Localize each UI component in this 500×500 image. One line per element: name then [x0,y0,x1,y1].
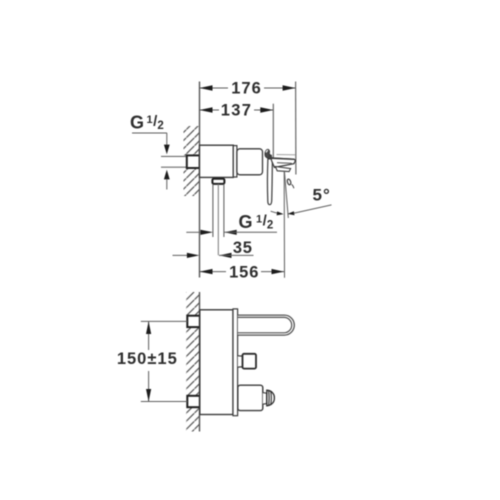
U-shaped handle loop inner [238,317,292,332]
G 1/2 bottom label line [224,231,277,233]
mixer body on wall [200,145,234,177]
dimension line 176 [200,87,296,89]
extension lines for 150 dimension [141,320,188,322]
diverter knob stem [238,356,243,368]
wall hatching lower part [184,168,200,196]
shower hose connection nut below body [212,179,224,184]
G 1/2 bottom dimension: tail through wall, arrow to pipe left edge [186,231,201,233]
arrowhead 156 right [272,269,285,274]
arrowhead 137 left [200,107,213,112]
dimension 35 tail line [173,254,191,256]
wall line [199,292,201,432]
mixer body front [200,310,233,415]
extension line right for 137 [272,104,274,159]
svg-text:G1/2: G1/2 [239,212,274,232]
lever blade [267,159,272,205]
arrow down to pipe top [164,145,170,155]
svg-text:G1/2: G1/2 [130,113,164,133]
wall face line [199,82,201,278]
pipe centre line [217,184,219,255]
arrow up to pipe bottom [164,170,170,180]
G 1/2 top leader vertical [166,133,168,146]
arrowhead 150 bottom [146,389,151,402]
cartridge housing [237,149,263,175]
bottom outlet cylinder [238,385,263,410]
arrowhead 176 right [283,85,296,90]
small knob neck [263,393,267,405]
dimension line 156 [200,271,285,273]
U-shaped handle loop outer [238,315,294,335]
right arrow at pipe right edge, label line [224,230,237,235]
small knob cap [267,390,275,406]
svg-text:150±15: 150±15 [117,350,178,368]
svg-text:35: 35 [233,239,253,257]
handle paddle (top lever arm) [271,158,295,168]
face plate band [233,309,238,416]
svg-text:176: 176 [231,80,262,98]
body ring / flange [233,146,237,177]
G 1/2 top label underline [132,132,167,134]
arrowhead 137 right [260,107,273,112]
arrowhead 176 left [200,85,213,90]
inlet pipe through wall [161,155,187,157]
angle arrowhead right [288,211,295,215]
svg-text:137: 137 [221,102,252,120]
handle joint bump [265,149,271,158]
diverter knob head [243,354,257,369]
small arc detail right of hook [292,184,294,188]
wall hatching upper part [184,126,200,156]
arrowhead G 1/2 at pipe left edge [201,230,214,235]
angle arrowhead left [277,211,284,215]
extension line right for 176 [295,82,297,175]
dimension 35 label line [219,254,254,256]
lower arrow tail line [166,179,168,190]
5 degree tilted ray [284,171,288,218]
dimension 150±15 [148,321,150,350]
paddle back top edge (faint) [277,154,296,156]
angle dimension arc arrows [271,211,279,213]
hose pipe lines [212,184,214,237]
tip hook detail [287,179,291,185]
arrowhead 156 left [200,269,213,274]
arrowhead 150 top [146,321,151,334]
svg-text:5°: 5° [313,185,331,204]
svg-text:156: 156 [229,264,259,282]
dimension line 137 [200,109,274,111]
bottom mounting nipple [187,396,200,407]
arrowhead 35 left at wall [187,253,200,258]
top mounting nipple [187,316,200,327]
vertical reference line (also 156 extension) [283,171,285,278]
handle neck [269,154,271,159]
paddle lower lip [275,167,290,172]
arrowhead 35 right at pipe centre [219,253,232,258]
leader to 5 deg text [297,205,332,213]
wall hatching band [186,292,200,316]
